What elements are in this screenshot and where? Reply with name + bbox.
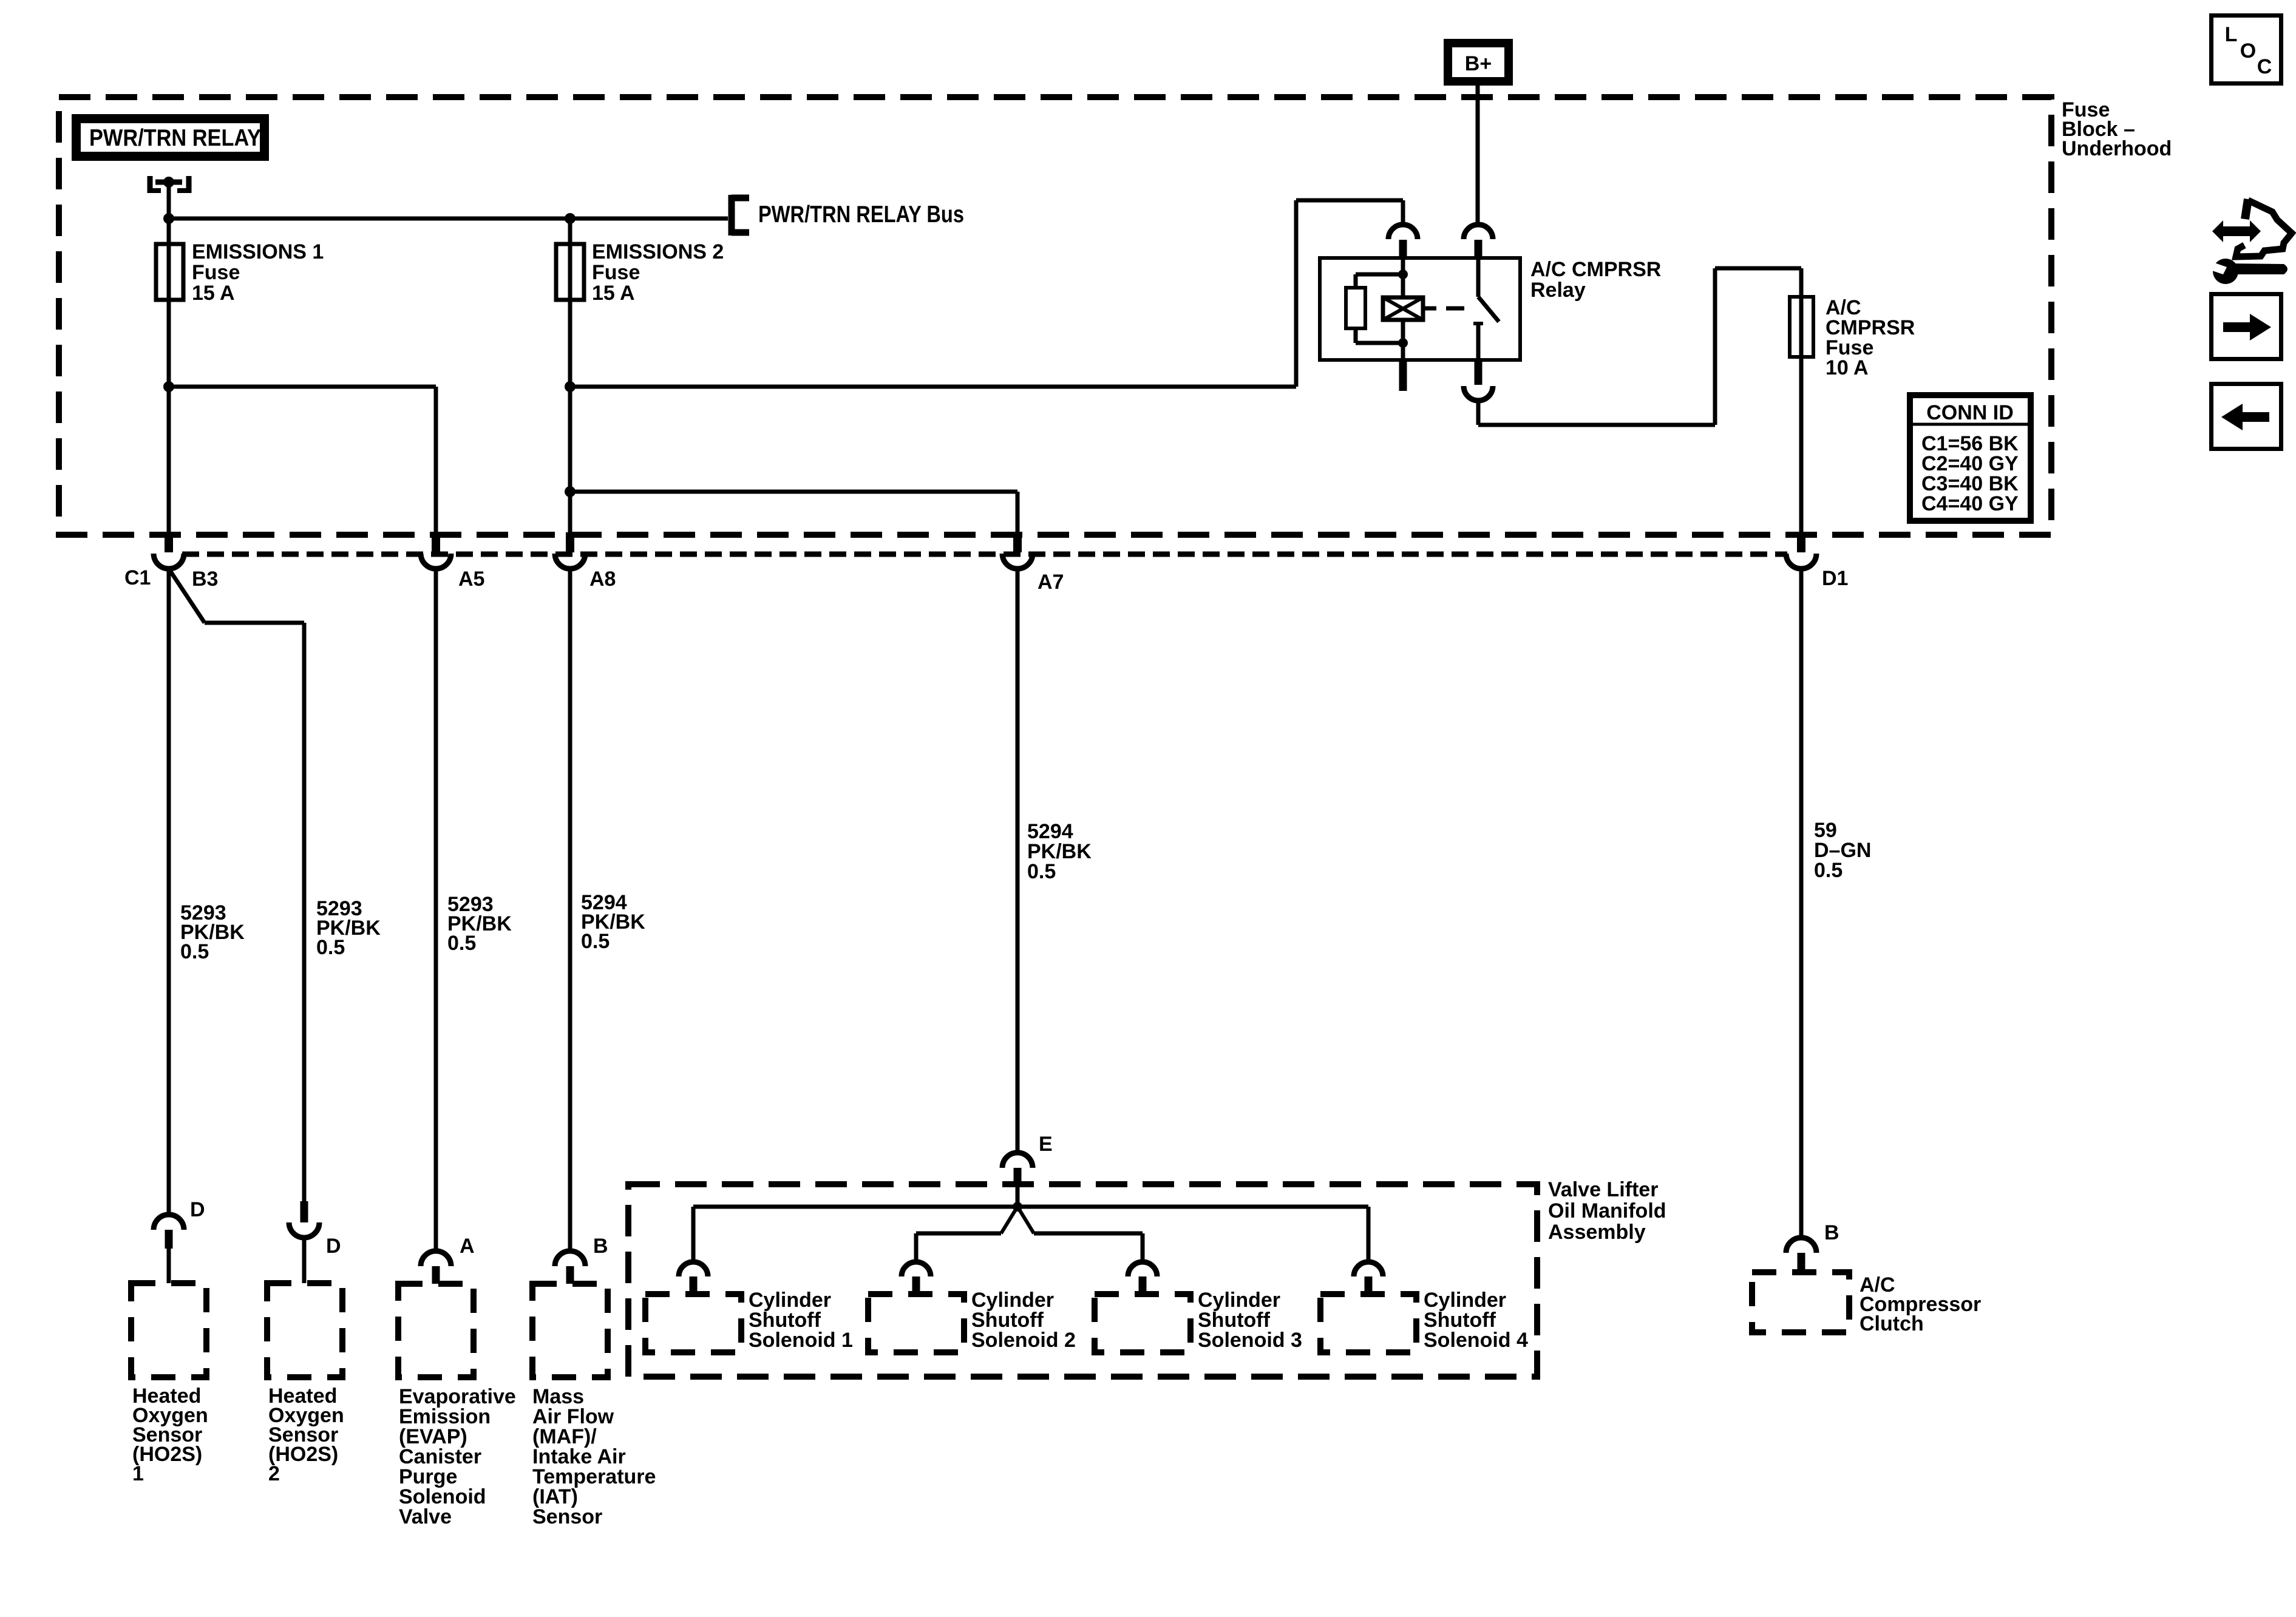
svg-text:Fuse: Fuse <box>592 261 640 284</box>
svg-text:C: C <box>2257 55 2272 78</box>
svg-text:L: L <box>2225 23 2238 46</box>
svg-text:B: B <box>1824 1221 1839 1244</box>
svg-text:EMISSIONS 1: EMISSIONS 1 <box>192 240 324 263</box>
svg-text:2: 2 <box>268 1462 280 1485</box>
svg-text:Clutch: Clutch <box>1860 1312 1924 1335</box>
svg-text:B: B <box>593 1235 608 1258</box>
svg-text:Assembly: Assembly <box>1548 1221 1646 1244</box>
svg-text:15 A: 15 A <box>192 282 235 305</box>
svg-text:Solenoid 3: Solenoid 3 <box>1198 1329 1302 1352</box>
svg-text:0.5: 0.5 <box>180 940 209 963</box>
svg-text:Underhood: Underhood <box>2062 137 2172 160</box>
svg-text:PWR/TRN RELAY: PWR/TRN RELAY <box>89 125 261 151</box>
svg-text:A5: A5 <box>458 568 484 591</box>
svg-text:0.5: 0.5 <box>316 936 345 959</box>
svg-text:EMISSIONS 2: EMISSIONS 2 <box>592 240 724 263</box>
svg-text:0.5: 0.5 <box>1814 859 1843 882</box>
svg-text:C1: C1 <box>124 566 151 589</box>
svg-text:Fuse: Fuse <box>192 261 240 284</box>
svg-text:15 A: 15 A <box>592 282 635 305</box>
svg-text:B3: B3 <box>192 568 218 591</box>
svg-text:O: O <box>2240 39 2256 63</box>
svg-text:Valve Lifter: Valve Lifter <box>1548 1178 1658 1201</box>
svg-text:D: D <box>326 1235 341 1258</box>
svg-text:PWR/TRN RELAY Bus: PWR/TRN RELAY Bus <box>758 202 964 228</box>
svg-text:0.5: 0.5 <box>581 930 610 953</box>
svg-text:Solenoid 4: Solenoid 4 <box>1424 1329 1528 1352</box>
svg-text:CONN ID: CONN ID <box>1926 401 2014 424</box>
svg-text:C4=40 GY: C4=40 GY <box>1921 492 2019 515</box>
svg-text:A8: A8 <box>589 568 616 591</box>
svg-text:Valve: Valve <box>399 1505 452 1528</box>
svg-text:A/C CMPRSR: A/C CMPRSR <box>1530 258 1661 281</box>
svg-text:10 A: 10 A <box>1826 356 1869 379</box>
svg-text:D1: D1 <box>1822 567 1848 590</box>
svg-text:A: A <box>460 1235 475 1258</box>
svg-text:E: E <box>1039 1133 1053 1156</box>
svg-text:1: 1 <box>132 1462 144 1485</box>
svg-text:A7: A7 <box>1038 571 1064 594</box>
svg-text:0.5: 0.5 <box>447 932 476 955</box>
svg-text:Oil Manifold: Oil Manifold <box>1548 1199 1666 1222</box>
svg-text:Relay: Relay <box>1530 279 1586 302</box>
svg-text:D: D <box>190 1198 205 1221</box>
svg-text:Solenoid 1: Solenoid 1 <box>749 1329 853 1352</box>
svg-text:0.5: 0.5 <box>1027 860 1056 883</box>
svg-text:Solenoid 2: Solenoid 2 <box>971 1329 1076 1352</box>
svg-text:B+: B+ <box>1465 52 1492 75</box>
svg-text:Sensor: Sensor <box>532 1505 602 1528</box>
